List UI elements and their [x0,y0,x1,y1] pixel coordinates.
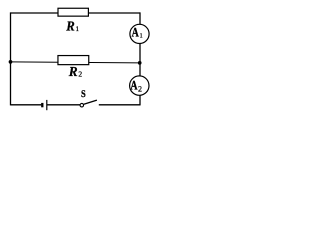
svg-text:A: A [130,77,138,92]
wire bottom middle (battery to switch) [47,104,80,106]
battery cell: short thick plate (negative) [41,103,43,107]
svg-text:R: R [68,64,78,79]
wire middle branch (R2 branch) [11,62,140,63]
svg-text:R: R [65,19,74,34]
switch S pivot [80,103,84,107]
switch S blade (open) [83,100,97,104]
node junction left (R2 branch tap) [9,60,13,64]
svg-text:1: 1 [76,25,80,33]
ammeter A2 [130,76,149,95]
node junction right (R2 branch tap) [138,61,142,65]
svg-text:S: S [81,89,86,100]
resistor R2 [58,56,89,79]
svg-text:1: 1 [140,33,143,40]
wire right rail [139,12,141,105]
svg-text:2: 2 [138,85,142,94]
wire left rail [10,12,12,105]
resistor R1 [58,8,88,33]
battery cell: long thin plate (positive) [46,100,48,110]
wire top (battery rail to ammeter A1) [11,12,141,14]
ammeter A1 [130,24,149,43]
svg-text:A: A [132,24,140,39]
wire bottom left (to battery) [11,104,42,106]
svg-text:2: 2 [78,69,82,78]
wire bottom right (switch to right rail) [99,104,140,106]
